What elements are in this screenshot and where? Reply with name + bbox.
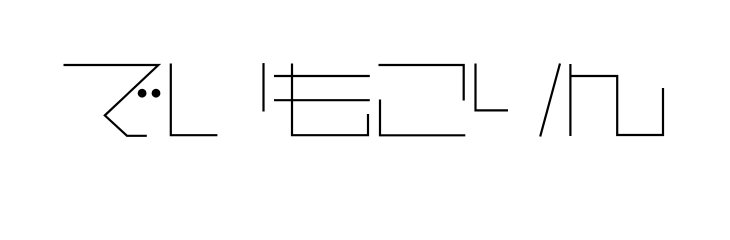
glyph 5 n-shape	[570, 76, 663, 135]
glyph 5 stem	[569, 64, 571, 136]
glyph 3 left vertical	[262, 63, 264, 111]
glyph 3 main vertical with bottom hook	[292, 64, 368, 136]
glyph 1 zigzag stroke	[64, 65, 159, 136]
glyph 1 dot right	[152, 89, 161, 98]
glyph 3 crossbar upper	[274, 75, 370, 77]
glyph 2 L stroke	[171, 64, 218, 136]
glyph 1 dot left	[138, 89, 147, 98]
glyph 4 left L stroke	[380, 100, 465, 136]
glyph 4 top bar with right drop	[379, 65, 464, 101]
glyph 5 slash	[540, 64, 560, 137]
glyph 3 crossbar lower	[274, 99, 370, 101]
glyph 4 right vertical with foot	[476, 64, 509, 111]
